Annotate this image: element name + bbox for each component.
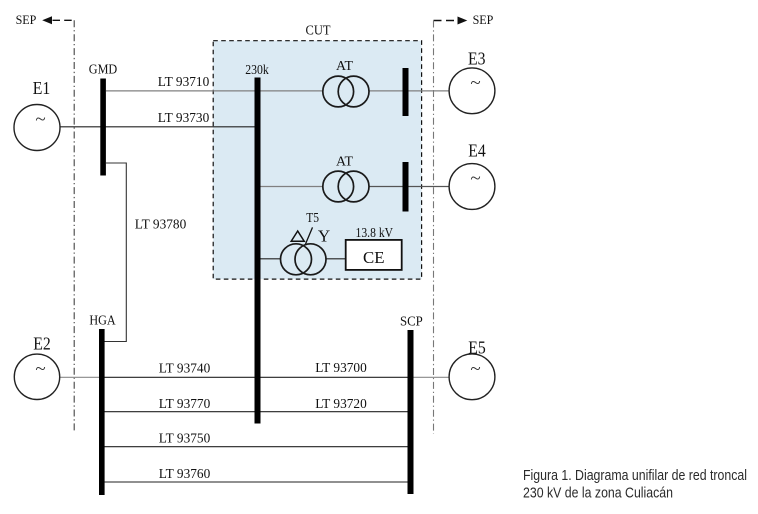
svg-text:Figura 1. Diagrama unifilar de: Figura 1. Diagrama unifilar de red tronc… [523, 468, 747, 484]
svg-text:AT: AT [336, 59, 353, 74]
svg-text:~: ~ [470, 358, 480, 379]
transformer AT2 [323, 154, 369, 202]
svg-text:LT 93770: LT 93770 [159, 397, 211, 412]
svg-text:SEP: SEP [16, 13, 37, 27]
transformer T5 [281, 210, 327, 275]
component CE condenser box [346, 225, 402, 270]
generator E4 [449, 140, 495, 209]
bus AT1 output [403, 68, 409, 116]
bus SCP [400, 315, 423, 495]
wire LT 93770 / LT 93720 line HGA to SCP [102, 397, 410, 412]
svg-text:LT 93730: LT 93730 [158, 111, 210, 126]
transformer AT1 [323, 59, 369, 107]
bus HGA [89, 313, 116, 495]
svg-text:E1: E1 [33, 78, 51, 98]
generator E1 [14, 78, 60, 151]
node SEP left label [16, 13, 37, 27]
svg-text:E3: E3 [468, 48, 486, 68]
svg-text:T5: T5 [306, 210, 319, 225]
generator E2 [14, 334, 59, 400]
svg-text:CUT: CUT [306, 24, 331, 39]
bus 230k [245, 63, 269, 424]
node CUT substation area [213, 24, 421, 279]
svg-text:LT 93760: LT 93760 [159, 467, 211, 482]
wire LT 93780 line GMD to HGA [105, 163, 187, 342]
svg-text:E2: E2 [33, 334, 51, 354]
svg-text:~: ~ [470, 168, 480, 189]
wire left boundary dash-dot line [73, 20, 75, 433]
wire AT2 line 230k bus to E4 [257, 186, 450, 188]
svg-text:~: ~ [470, 72, 480, 93]
svg-text:LT 93720: LT 93720 [315, 397, 367, 412]
wire SEP right dashed arrow [434, 17, 468, 25]
bus GMD [89, 62, 118, 175]
svg-text:230 kV de la zona Culiacán: 230 kV de la zona Culiacán [523, 486, 673, 502]
svg-text:CE: CE [363, 248, 385, 267]
wire SEP left dashed arrow [42, 16, 74, 24]
generator E5 [449, 337, 495, 399]
wire LT 93760 line HGA to SCP [102, 467, 410, 482]
bus AT2 output [403, 162, 409, 212]
svg-text:13.8 kV: 13.8 kV [356, 225, 394, 240]
svg-text:GMD: GMD [89, 62, 118, 77]
label delta/wye winding symbols [291, 226, 330, 245]
svg-text:LT 93700: LT 93700 [315, 361, 367, 376]
node SEP right label [473, 13, 494, 27]
svg-text:HGA: HGA [89, 313, 116, 328]
svg-text:E4: E4 [468, 140, 486, 160]
wire LT 93740 / LT 93700 line E2 to E5 [60, 361, 450, 377]
svg-text:LT 93710: LT 93710 [158, 75, 210, 90]
svg-text:~: ~ [35, 109, 45, 130]
generator E3 [449, 48, 495, 113]
svg-text:LT 93750: LT 93750 [159, 431, 211, 446]
wire LT 93730 line E1 to 230k bus [60, 111, 258, 127]
svg-text:~: ~ [35, 358, 45, 379]
svg-text:AT: AT [336, 154, 353, 169]
wire T5 line 230k bus to transformer to CE [257, 258, 346, 260]
wire right boundary dash-dot line [433, 21, 435, 434]
svg-text:SEP: SEP [473, 13, 494, 27]
svg-text:LT 93740: LT 93740 [159, 362, 211, 377]
label figure caption [523, 468, 747, 502]
svg-text:Y: Y [318, 226, 330, 245]
svg-text:SCP: SCP [400, 315, 423, 330]
wire LT 93710 line GMD to AT to E3 [106, 75, 450, 91]
svg-text:LT 93780: LT 93780 [135, 218, 187, 233]
svg-text:230k: 230k [245, 63, 269, 78]
wire LT 93750 line HGA to SCP [102, 431, 410, 446]
